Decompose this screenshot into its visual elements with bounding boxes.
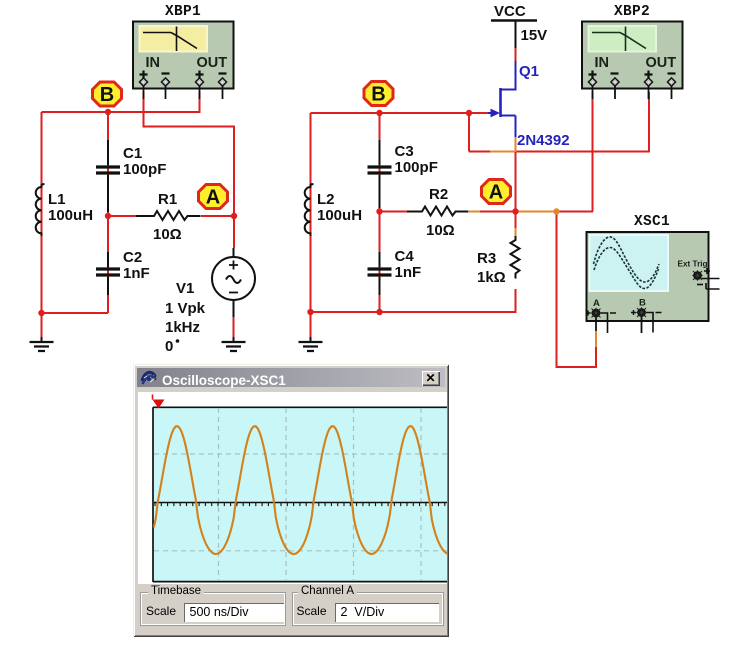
ground V1 <box>222 337 246 351</box>
inductor L2 <box>305 184 314 236</box>
power VCC <box>491 21 537 49</box>
close button <box>422 371 440 386</box>
svg-text:1nF: 1nF <box>123 265 150 282</box>
wire V1 top lead red <box>233 216 235 248</box>
junction L2 bottom <box>307 309 313 315</box>
svg-text:XBP2: XBP2 <box>614 4 650 20</box>
svg-text:A: A <box>593 298 600 309</box>
svg-text:OUT: OUT <box>197 55 228 71</box>
timebase scale value box <box>184 603 284 622</box>
channel A group box <box>292 592 444 626</box>
graph plot background <box>154 408 453 582</box>
svg-text:1 Vpk: 1 Vpk <box>165 300 206 317</box>
svg-text:L2: L2 <box>317 191 335 208</box>
wire V1 bottom lead red <box>233 316 235 340</box>
svg-text:0: 0 <box>165 338 173 355</box>
title icon <box>140 369 157 386</box>
junction R1 left <box>105 213 111 219</box>
svg-text:100uH: 100uH <box>317 207 362 224</box>
wire right tank center vertical <box>379 113 381 312</box>
svg-text:B: B <box>100 84 114 106</box>
grid horizontal dashed lines <box>154 454 453 551</box>
wire left tank left branch <box>41 112 43 313</box>
channel A scale value box <box>335 603 439 622</box>
timebase scale label <box>146 604 176 618</box>
svg-text:10Ω: 10Ω <box>153 226 182 243</box>
svg-text:C3: C3 <box>395 143 414 160</box>
oscilloscope XSC1 icon <box>586 232 720 333</box>
wire right tank left branch <box>310 113 312 312</box>
svg-text:IN: IN <box>146 55 161 71</box>
wire left ground stem <box>41 313 43 340</box>
svg-text:C4: C4 <box>395 248 415 265</box>
wire left tank center vertical <box>107 112 109 313</box>
svg-text:Ext Trig: Ext Trig <box>678 260 708 269</box>
scope graph area <box>138 392 447 584</box>
svg-text:VCC: VCC <box>494 3 526 20</box>
ground right tank <box>299 337 323 351</box>
wire R1 row <box>108 215 234 217</box>
wire node A down to scope channel A <box>557 212 597 368</box>
grid vertical dashed lines <box>219 408 422 581</box>
svg-text:C2: C2 <box>123 249 142 266</box>
svg-text:OUT: OUT <box>646 55 677 71</box>
svg-text:C1: C1 <box>123 145 142 162</box>
svg-text:100pF: 100pF <box>123 161 166 178</box>
junction R2 left <box>376 208 382 214</box>
bode plotter XBP1 <box>133 22 234 100</box>
wire R2 right lead orange bit <box>469 211 480 213</box>
wire gate row to XBP2 OUT+ red part <box>469 92 649 152</box>
svg-text:R2: R2 <box>429 186 448 203</box>
capacitor C4 <box>368 252 392 295</box>
svg-text:1nF: 1nF <box>395 264 422 281</box>
wire right ground stem <box>310 312 312 340</box>
resistor R3 <box>511 236 520 279</box>
oscilloscope window XSC1 <box>133 364 449 637</box>
svg-text:L1: L1 <box>48 191 66 208</box>
node badge B left <box>93 82 122 106</box>
capacitor C3 <box>368 140 392 208</box>
svg-text:B: B <box>639 298 646 309</box>
junction node B left <box>105 109 111 115</box>
svg-text:100uH: 100uH <box>48 207 93 224</box>
transistor Q1 JFET <box>488 61 516 137</box>
wire scope lead orange top <box>595 331 597 347</box>
wire gate junction down <box>468 113 470 152</box>
wire right tank top horizontal to gate <box>311 112 489 114</box>
inductor L1 <box>36 184 45 236</box>
svg-text:100pF: 100pF <box>395 159 438 176</box>
timebase label <box>148 585 204 597</box>
resistor R2 <box>407 207 469 216</box>
resistor R1 <box>136 211 201 220</box>
svg-text:A: A <box>206 187 220 209</box>
svg-text:R3: R3 <box>477 250 496 267</box>
wire XBP1 IN+ to node A column <box>144 92 235 216</box>
source V1 <box>212 248 255 317</box>
svg-text:B: B <box>371 84 385 106</box>
wire Q1 source orange segment <box>515 137 517 152</box>
node badge B right <box>364 82 393 106</box>
svg-text:R1: R1 <box>158 191 177 208</box>
svg-text:A: A <box>489 182 503 204</box>
svg-text:IN: IN <box>595 55 610 71</box>
wire XBP2 IN+ vertical <box>592 92 594 212</box>
wire right tank bottom horizontal to R3 <box>311 289 516 312</box>
junction node B right <box>376 110 382 116</box>
wire VCC to drain red <box>515 48 517 61</box>
svg-text:Q1: Q1 <box>519 63 539 80</box>
title bar <box>137 368 445 387</box>
wire node A to XBP2 IN+ orange <box>516 211 557 213</box>
wire left tank top horizontal B to XBP1 OUT+ <box>42 92 200 112</box>
ground left tank <box>30 337 54 351</box>
svg-text:1kHz: 1kHz <box>165 319 200 336</box>
trigger marker <box>153 400 165 409</box>
junction scope tap orange <box>553 208 559 214</box>
svg-text:1kΩ: 1kΩ <box>477 269 506 286</box>
waveform channel A <box>154 426 450 554</box>
capacitor C1 <box>96 140 120 212</box>
svg-text:XBP1: XBP1 <box>165 4 201 20</box>
timebase group box <box>140 592 286 626</box>
wire R3 top lead red-orange <box>515 212 517 229</box>
svg-text:V1: V1 <box>176 280 194 297</box>
junction C4 bottom <box>376 309 382 315</box>
time axis with ticks <box>154 502 453 504</box>
bode plotter XBP2 <box>582 22 683 100</box>
junction L1 bottom <box>38 310 44 316</box>
node badge A left <box>199 185 228 209</box>
junction node A left <box>231 213 237 219</box>
capacitor C2 <box>96 252 120 295</box>
svg-text:10Ω: 10Ω <box>426 222 455 239</box>
wire R2 row red <box>380 211 516 213</box>
wire orange dot to XBP2 IN+ red <box>557 211 594 213</box>
channel A scale label <box>297 604 327 618</box>
node badge A right <box>482 180 511 204</box>
wire Q1 source to node A <box>515 152 517 212</box>
junction gate <box>466 110 472 116</box>
title text <box>162 373 286 388</box>
svg-text:XSC1: XSC1 <box>634 214 670 230</box>
wire left tank bottom horizontal <box>42 312 109 314</box>
junction node A right <box>512 208 518 214</box>
channel A label <box>298 585 357 597</box>
svg-text:15V: 15V <box>521 27 548 44</box>
wire gate row orange segment <box>490 151 516 153</box>
svg-text:2N4392: 2N4392 <box>517 132 570 149</box>
